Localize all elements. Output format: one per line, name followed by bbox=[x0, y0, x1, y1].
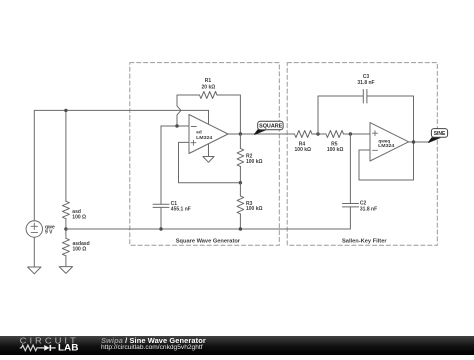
label qwe 9 V bbox=[45, 225, 55, 236]
resistor R2 100k bbox=[237, 134, 244, 183]
svg-text:Sallen-Key Filter: Sallen-Key Filter bbox=[342, 238, 387, 244]
ground below V1 bbox=[28, 267, 41, 274]
svg-text:455.1 nF: 455.1 nF bbox=[171, 207, 191, 213]
wire supply rail top bbox=[34, 110, 208, 221]
label Sallen-Key Filter bbox=[342, 238, 387, 244]
CircuitLab logo bbox=[0, 335, 90, 354]
dashed box Sallen-Key Filter bbox=[287, 63, 437, 246]
svg-text:100 Ω: 100 Ω bbox=[73, 246, 87, 252]
output flag SINE bbox=[429, 129, 448, 143]
svg-text:20 kΩ: 20 kΩ bbox=[202, 84, 216, 90]
capacitor C2 31.8 nF bbox=[342, 204, 358, 207]
wire U1 output bbox=[228, 133, 295, 135]
wire C3 right branch bbox=[367, 96, 414, 142]
label C3 31.8 nF bbox=[357, 74, 374, 86]
resistor R3 100k bbox=[237, 183, 244, 229]
wire R4 to R5 bbox=[312, 133, 326, 135]
voltage source V1 qwe 9V bbox=[26, 221, 42, 267]
wire R1 feedback vertical with hop over supply wire bbox=[177, 95, 200, 126]
wire C2 branch bbox=[349, 134, 351, 204]
ground op-amp U1 bbox=[203, 157, 214, 163]
node C1 rail junction bbox=[159, 227, 162, 230]
footer title bbox=[101, 337, 206, 344]
wire divider branch bbox=[65, 110, 67, 201]
label R4 100k bbox=[295, 141, 312, 152]
label C1 455.1 nF bbox=[171, 201, 191, 213]
svg-text:100 kΩ: 100 kΩ bbox=[327, 147, 344, 153]
node reference mid junction bbox=[64, 227, 67, 230]
label R5 100k bbox=[327, 141, 344, 152]
label ed LM324 bbox=[196, 130, 213, 140]
resistor R5 100k bbox=[326, 131, 344, 138]
resistor R1 20k bbox=[200, 92, 218, 99]
wire non-inverting input U1 bbox=[179, 142, 241, 182]
op-amp U2 qweq LM324 bbox=[370, 123, 409, 161]
dashed box Square Wave Generator bbox=[130, 63, 279, 246]
wire R1 right to output bbox=[217, 95, 240, 134]
capacitor C1 455.1 nF bbox=[153, 204, 169, 229]
node C3 branch junction bbox=[316, 132, 319, 135]
CircuitLab footer bar bbox=[0, 336, 474, 355]
svg-text:100 kΩ: 100 kΩ bbox=[295, 147, 312, 153]
footer url bbox=[101, 344, 203, 351]
svg-text:100 kΩ: 100 kΩ bbox=[246, 159, 263, 165]
svg-text:SQUARE: SQUARE bbox=[259, 123, 282, 129]
resistor asd 100 bbox=[62, 201, 69, 219]
wire C3 left branch bbox=[318, 96, 363, 134]
label R1 20k bbox=[202, 78, 216, 90]
wire C1 branch bbox=[160, 126, 162, 204]
node C2 branch junction bbox=[349, 132, 352, 135]
svg-text:100 Ω: 100 Ω bbox=[72, 214, 86, 220]
svg-text:LM324: LM324 bbox=[196, 135, 213, 140]
wire reference rail bbox=[66, 207, 351, 229]
wire inverting input U1 bbox=[161, 125, 189, 127]
svg-text:LAB: LAB bbox=[58, 343, 79, 353]
label R2 100k bbox=[246, 154, 263, 165]
svg-text:31.8 nF: 31.8 nF bbox=[357, 80, 374, 86]
node R3 rail junction bbox=[239, 227, 242, 230]
svg-text:Square Wave Generator: Square Wave Generator bbox=[176, 238, 241, 244]
capacitor C3 31.8 nF bbox=[363, 90, 367, 104]
label R3 100k bbox=[246, 201, 263, 212]
wire op-amp U1 V+ stub bbox=[208, 110, 210, 124]
wire asd to mid node bbox=[65, 219, 67, 239]
svg-text:ed: ed bbox=[196, 130, 202, 135]
wire op-amp U1 V- stub bbox=[208, 144, 210, 157]
svg-text:31.8 nF: 31.8 nF bbox=[360, 207, 377, 213]
svg-text:C2: C2 bbox=[360, 201, 367, 207]
op-amp U1 ed LM324 bbox=[189, 115, 228, 154]
wire U2 feedback loop bbox=[359, 142, 414, 180]
svg-text:100 kΩ: 100 kΩ bbox=[246, 206, 263, 212]
node U2 output junction bbox=[412, 140, 415, 143]
label SINE bbox=[434, 131, 446, 137]
wire asdasd to ground bbox=[65, 256, 67, 267]
label asd 100 bbox=[72, 209, 86, 220]
svg-text:LM324: LM324 bbox=[378, 143, 395, 148]
svg-text:R1: R1 bbox=[205, 78, 212, 84]
svg-text:9 V: 9 V bbox=[45, 230, 53, 236]
label C2 31.8 nF bbox=[360, 201, 377, 213]
label asdasd 100 bbox=[73, 241, 90, 252]
label qweq LM324 bbox=[378, 138, 395, 148]
wire U2 output bbox=[409, 141, 429, 143]
ground below asdasd bbox=[59, 267, 72, 274]
resistor asdasd 100 bbox=[62, 238, 69, 256]
label SQUARE bbox=[259, 123, 282, 129]
svg-text:SINE: SINE bbox=[434, 131, 446, 137]
node R2 R3 junction bbox=[239, 181, 242, 184]
label Square Wave Generator bbox=[176, 238, 241, 244]
wire R5 to U2 bbox=[344, 133, 371, 135]
node supply junction bbox=[64, 109, 67, 112]
resistor R4 100k bbox=[295, 131, 313, 138]
node inverting input junction bbox=[175, 124, 178, 127]
output flag SQUARE bbox=[255, 121, 284, 134]
node U1 output junction bbox=[239, 132, 242, 135]
